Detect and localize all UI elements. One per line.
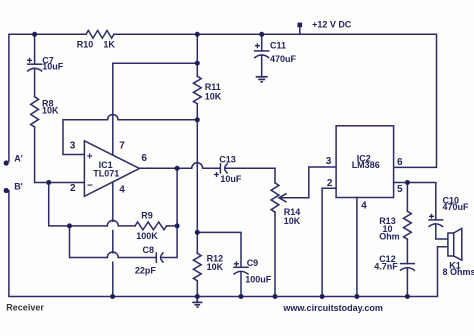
svg-text:1K: 1K [103,40,115,50]
svg-text:6: 6 [141,153,147,164]
svg-text:6: 6 [397,157,403,168]
svg-text:10K: 10K [207,262,224,272]
svg-text:470uF: 470uF [443,202,470,212]
svg-text:R9: R9 [141,211,153,221]
svg-text:100K: 100K [136,231,158,241]
svg-text:4: 4 [361,201,367,212]
svg-text:B': B' [14,181,23,191]
svg-text:10uF: 10uF [42,62,64,72]
svg-text:+12 V DC: +12 V DC [312,20,352,30]
svg-text:www.circuitstoday.com: www.circuitstoday.com [282,303,383,313]
svg-text:10K: 10K [205,92,222,102]
svg-text:5: 5 [397,184,403,195]
svg-text:2: 2 [327,178,333,189]
svg-text:R11: R11 [205,82,221,92]
svg-text:8 Ohms: 8 Ohms [443,267,474,277]
svg-text:4.7nF: 4.7nF [374,262,398,272]
svg-text:A': A' [14,153,23,163]
svg-text:10K: 10K [42,105,59,115]
svg-text:+: + [87,152,93,163]
svg-text:R10: R10 [77,40,94,50]
svg-text:10K: 10K [284,216,301,226]
svg-text:3: 3 [326,156,332,167]
svg-text:Receiver: Receiver [6,303,44,313]
svg-text:TL071: TL071 [93,169,119,179]
svg-text:C13: C13 [219,155,236,165]
svg-text:3: 3 [70,141,76,152]
svg-text:C11: C11 [270,41,286,51]
svg-text:7: 7 [119,141,125,152]
svg-text:Ohm: Ohm [379,232,400,242]
svg-text:LM386: LM386 [352,160,380,170]
svg-text:470uF: 470uF [270,54,297,64]
svg-text:4: 4 [119,184,125,195]
svg-text:−: − [87,180,93,191]
svg-text:100uF: 100uF [245,275,272,285]
svg-text:2: 2 [70,183,76,194]
svg-text:C9: C9 [247,258,259,268]
svg-text:10uF: 10uF [220,174,242,184]
svg-text:22pF: 22pF [135,265,157,275]
svg-text:C8: C8 [143,245,155,255]
